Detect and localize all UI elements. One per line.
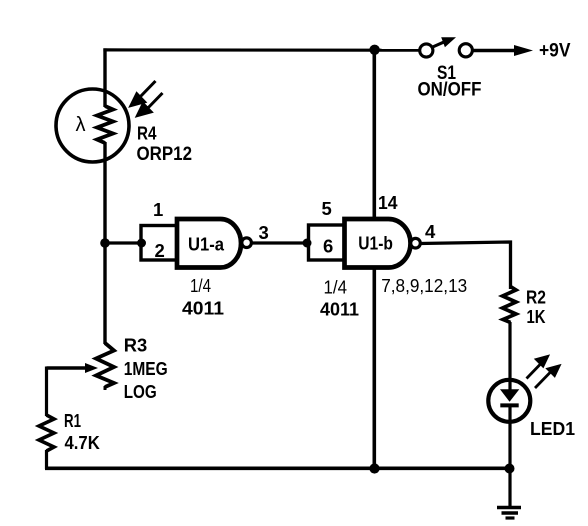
svg-text:7,8,9,12,13: 7,8,9,12,13 bbox=[381, 275, 467, 296]
svg-text:LED1: LED1 bbox=[530, 418, 575, 439]
svg-text:ON/OFF: ON/OFF bbox=[418, 79, 482, 101]
svg-text:R3: R3 bbox=[124, 335, 148, 356]
svg-text:λ: λ bbox=[76, 114, 86, 136]
svg-text:2: 2 bbox=[155, 240, 165, 261]
svg-text:14: 14 bbox=[378, 192, 398, 213]
svg-text:U1-b: U1-b bbox=[358, 233, 393, 254]
svg-text:4.7K: 4.7K bbox=[65, 432, 101, 453]
svg-text:+9V: +9V bbox=[539, 40, 571, 62]
svg-text:4011: 4011 bbox=[320, 299, 359, 320]
svg-text:5: 5 bbox=[322, 198, 332, 219]
svg-text:U1-a: U1-a bbox=[188, 234, 225, 255]
svg-text:1/4: 1/4 bbox=[190, 276, 211, 296]
svg-text:R2: R2 bbox=[526, 287, 546, 308]
svg-text:1K: 1K bbox=[527, 306, 547, 327]
svg-text:1/4: 1/4 bbox=[324, 278, 348, 298]
svg-text:1MEG: 1MEG bbox=[124, 358, 168, 379]
svg-text:1: 1 bbox=[153, 199, 163, 220]
svg-text:3: 3 bbox=[259, 222, 269, 243]
svg-text:LOG: LOG bbox=[124, 381, 157, 402]
svg-text:6: 6 bbox=[323, 236, 333, 257]
svg-text:ORP12: ORP12 bbox=[137, 144, 193, 165]
svg-text:R4: R4 bbox=[137, 124, 157, 144]
svg-text:4: 4 bbox=[425, 221, 436, 242]
svg-text:4011: 4011 bbox=[182, 298, 224, 319]
svg-text:R1: R1 bbox=[64, 410, 81, 431]
